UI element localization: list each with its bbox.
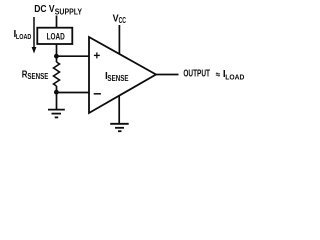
node B junction dot (54, 90, 59, 95)
wire node B to op-amp - input (57, 92, 90, 94)
svg-text:SUPPLY: SUPPLY (55, 7, 83, 16)
svg-text:LOAD: LOAD (225, 72, 245, 81)
label ILOAD (14, 29, 32, 41)
label RSENSE (22, 70, 49, 82)
label DC VSUPPLY (34, 4, 82, 16)
svg-text:DC V: DC V (34, 4, 55, 15)
wire VCC to op-amp top (118, 25, 120, 54)
label VCC (113, 13, 127, 25)
label ISENSE inside op-amp (105, 71, 129, 83)
svg-text:LOAD: LOAD (47, 31, 65, 41)
op-amp U1 triangle (89, 37, 156, 113)
op-amp - input symbol (94, 93, 101, 95)
svg-text:CC: CC (119, 16, 127, 25)
wire node A to op-amp + input (57, 55, 90, 57)
load box (37, 28, 72, 44)
svg-text:OUTPUT: OUTPUT (183, 69, 210, 80)
ground (below op-amp) (110, 124, 129, 131)
ground (left, below RSENSE) (48, 110, 65, 118)
label OUTPUT approx ILOAD (183, 69, 245, 82)
resistor RSENSE zigzag (54, 62, 60, 86)
svg-text:SENSE: SENSE (27, 72, 49, 81)
op-amp + input symbol (94, 52, 100, 58)
wire supply stub (56, 16, 58, 29)
node A junction dot (54, 54, 59, 59)
arrow ILOAD current direction (32, 17, 37, 54)
wire load box to node A (56, 44, 58, 62)
wire op-amp output (156, 74, 179, 76)
svg-text:LOAD: LOAD (16, 32, 32, 41)
wire resistor to node B and ground (56, 86, 58, 109)
wire op-amp bottom to ground (118, 96, 120, 124)
svg-text:SENSE: SENSE (107, 74, 129, 83)
